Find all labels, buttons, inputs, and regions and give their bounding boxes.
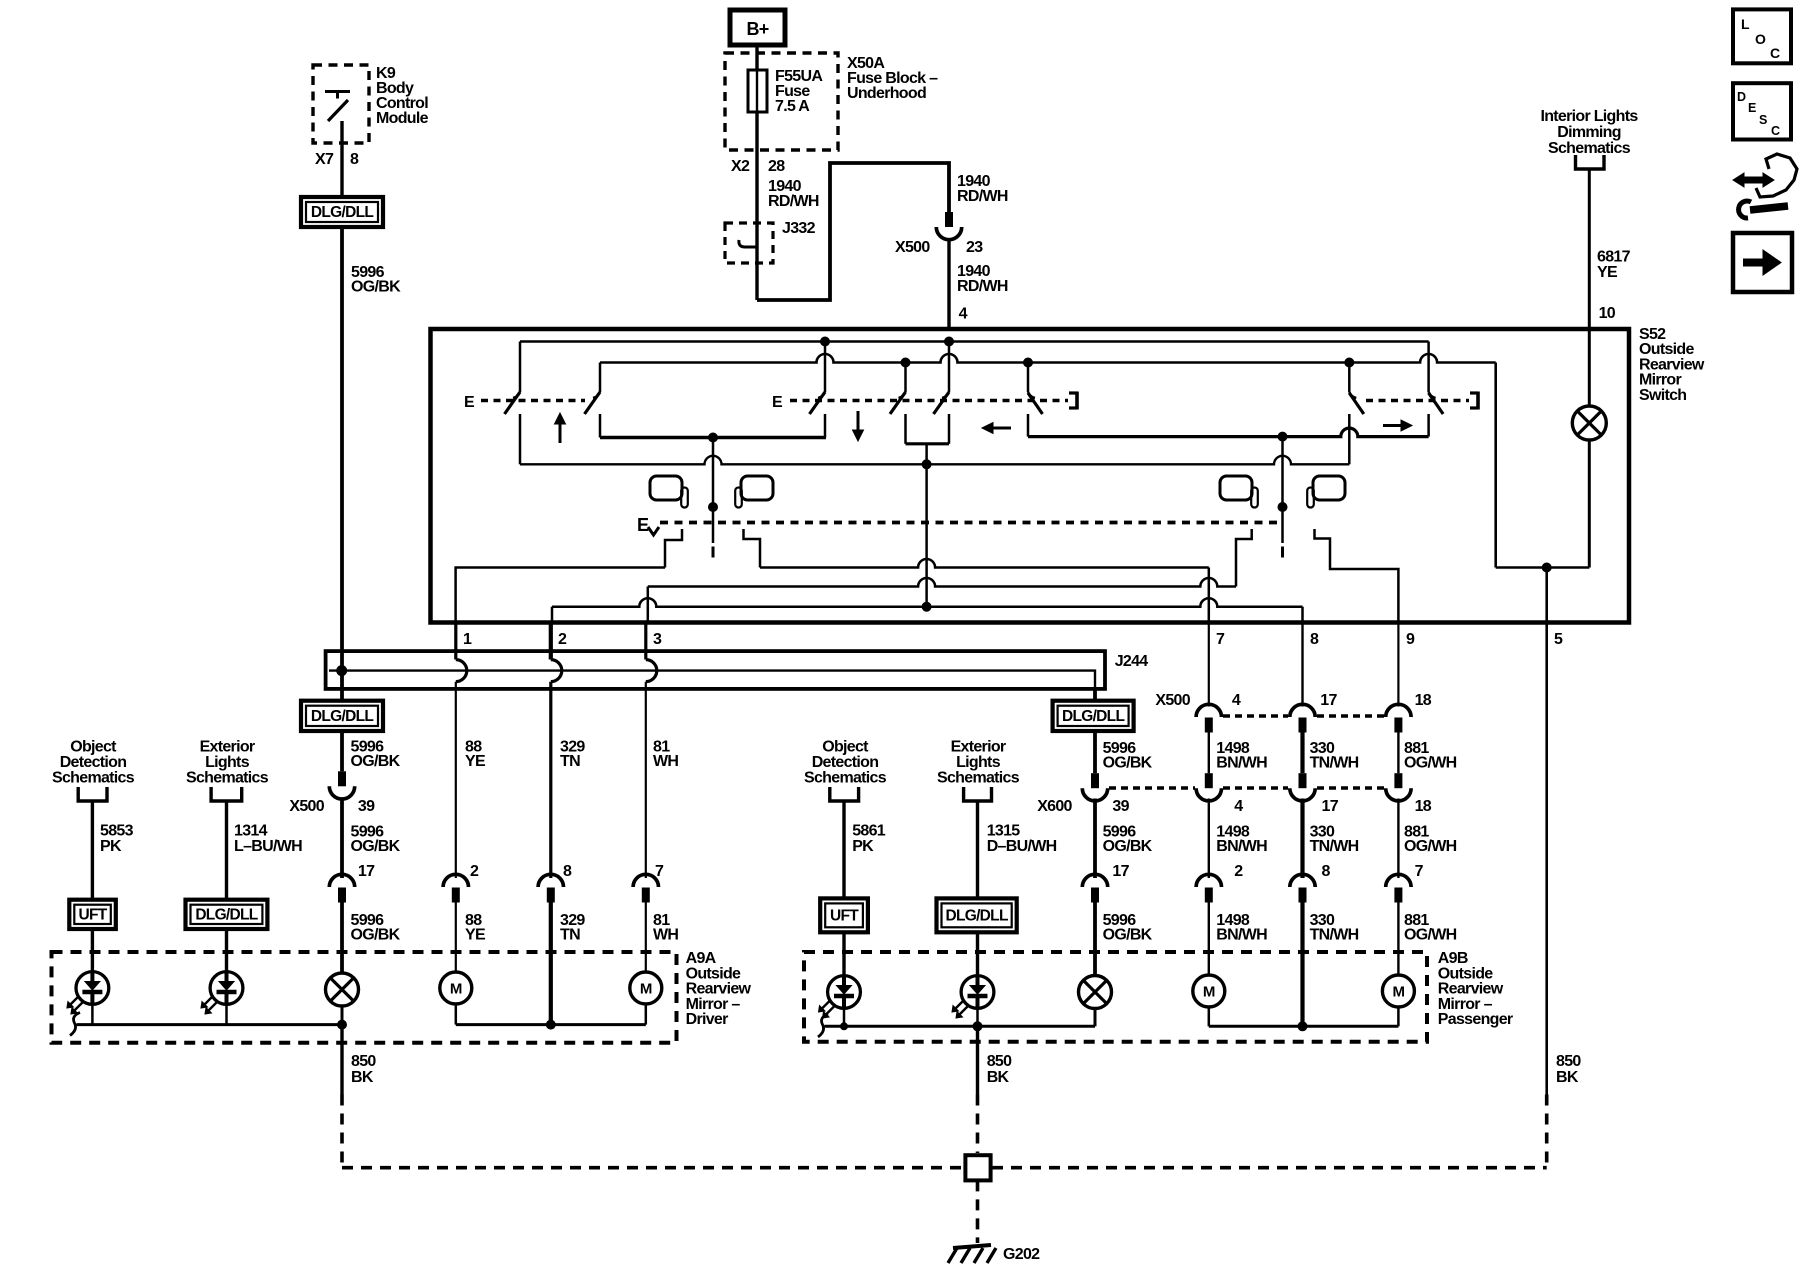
svg-text:OG/WH: OG/WH <box>1404 838 1457 855</box>
switch down-left SA <box>824 342 827 393</box>
wire X500 to S52 pin 4 <box>947 239 950 329</box>
schematic bracket exterior lights right <box>964 787 992 801</box>
DLG/DLL box upper left <box>301 197 383 227</box>
DLG/DLL box exterior left <box>186 900 268 929</box>
switch right-2 SF <box>1427 342 1430 393</box>
svg-text:E: E <box>772 394 783 411</box>
svg-text:Schematics: Schematics <box>804 769 887 786</box>
wire pin8 middle <box>1300 731 1304 773</box>
svg-text:S: S <box>1759 113 1767 127</box>
svg-text:8: 8 <box>563 863 572 880</box>
svg-text:5: 5 <box>1554 631 1563 648</box>
dashed drop to G202 <box>976 1180 980 1243</box>
wire pin8 drop <box>1301 607 1304 623</box>
junction dot pin5 <box>1542 563 1551 572</box>
G202 ground symbol <box>953 1245 991 1248</box>
down arrow <box>857 411 860 430</box>
svg-text:Interior Lights: Interior Lights <box>1540 108 1638 125</box>
svg-text:4: 4 <box>1232 692 1241 709</box>
junction dot A9A 850 <box>338 1020 347 1029</box>
wire pin7 lower mid <box>1208 799 1210 879</box>
A9A motor1 drop <box>455 1004 458 1025</box>
svg-text:O: O <box>1755 31 1766 47</box>
K9 internal switch symbol <box>325 90 350 93</box>
wire S52 pin5 850 BK <box>1545 623 1548 1095</box>
connector X500 pin 23 <box>945 212 953 227</box>
dashed ground run right <box>992 1166 1547 1170</box>
wire 1095 to lamp <box>1093 902 1097 976</box>
svg-text:7: 7 <box>1216 631 1225 648</box>
svg-text:BN/WH: BN/WH <box>1216 838 1267 855</box>
svg-text:4: 4 <box>959 306 968 323</box>
svg-text:Schematics: Schematics <box>52 769 135 786</box>
wire pin3 below box <box>644 623 647 660</box>
wire fuse output to X500 <box>757 163 949 300</box>
DLG/DLL box lower left <box>301 701 383 731</box>
left arrow <box>992 427 1011 430</box>
junction dot rail2 x1350 <box>1345 358 1354 367</box>
switch up-left S1 <box>519 342 522 393</box>
svg-text:X500: X500 <box>289 798 324 815</box>
A9B heater lamp <box>1079 976 1112 1009</box>
wire selector to pin7 <box>760 559 1209 568</box>
schematic bracket object detection right <box>830 787 859 801</box>
pair BC tap wire lower <box>925 464 928 602</box>
wire UFT to LED right <box>842 932 845 977</box>
wire pin5 node <box>1496 566 1590 569</box>
junction dot BC tap on L3 <box>922 602 931 611</box>
rail2 <box>600 354 1496 363</box>
left mirror icon passenger <box>741 476 773 500</box>
Ev dashed link <box>660 521 1283 525</box>
A9A lamp drop <box>341 1006 344 1025</box>
svg-text:TN/WH: TN/WH <box>1310 755 1359 772</box>
svg-text:B+: B+ <box>746 19 768 39</box>
wire pin2 below box <box>549 623 553 660</box>
svg-text:OG/BK: OG/BK <box>351 927 401 944</box>
svg-text:X7: X7 <box>315 151 334 168</box>
S52 outside rearview mirror switch box <box>431 329 1630 623</box>
svg-text:M: M <box>640 981 652 998</box>
junction dot rail1 x825 <box>821 337 830 346</box>
DLG/DLL box lower right <box>1053 701 1134 731</box>
connector X600-17 <box>1299 773 1307 788</box>
svg-text:8: 8 <box>1322 863 1331 880</box>
wire A9A 850 BK <box>340 1025 343 1095</box>
A9A led2 drop <box>225 1004 228 1025</box>
svg-text:BK: BK <box>987 1069 1010 1086</box>
J244 pass-through pin3 <box>646 660 657 682</box>
right selector blade tip <box>1281 547 1284 558</box>
connector X500-18 <box>1386 704 1411 717</box>
svg-text:1: 1 <box>463 631 472 648</box>
svg-text:Dimming: Dimming <box>1557 124 1621 141</box>
wire selector to pin3 <box>648 578 1236 587</box>
svg-text:Schematics: Schematics <box>937 769 1020 786</box>
X600 dashed link a <box>1109 786 1195 790</box>
junction dot 5996 on J244 <box>337 666 347 676</box>
svg-text:DLG/DLL: DLG/DLL <box>1062 708 1124 725</box>
svg-text:TN: TN <box>560 927 580 944</box>
svg-text:Schematics: Schematics <box>186 769 269 786</box>
svg-text:7: 7 <box>1415 863 1424 880</box>
junction dot rail3 x926 <box>922 460 931 469</box>
wire pin7 middle <box>1208 731 1210 773</box>
left selector left contact <box>665 529 682 568</box>
svg-text:PK: PK <box>100 838 122 855</box>
junction dot A9B 330 <box>1298 1022 1307 1031</box>
svg-text:BN/WH: BN/WH <box>1216 755 1267 772</box>
svg-text:L: L <box>1741 16 1750 32</box>
junction dot U3 tap <box>1278 432 1287 441</box>
svg-text:2: 2 <box>470 863 479 880</box>
wire pin2 drop <box>551 607 554 623</box>
svg-text:RD/WH: RD/WH <box>768 193 819 210</box>
U loop SB-SC <box>906 442 950 445</box>
wire pin5 850 BK dashed <box>1545 1095 1549 1168</box>
svg-text:J332: J332 <box>782 220 816 237</box>
svg-text:850: 850 <box>351 1053 376 1070</box>
svg-text:OG/BK: OG/BK <box>1103 838 1153 855</box>
J332 tap symbol <box>739 240 757 247</box>
svg-text:OG/BK: OG/BK <box>1103 927 1153 944</box>
wire A9B 850 BK <box>976 1026 979 1094</box>
wire pin3 drop <box>647 587 650 623</box>
svg-text:10: 10 <box>1599 305 1616 322</box>
svg-text:DLG/DLL: DLG/DLL <box>311 708 373 725</box>
wire 342 below X500 <box>340 799 344 879</box>
svg-text:850: 850 <box>1556 1053 1581 1070</box>
junction dot rail1 x949 <box>945 337 954 346</box>
svg-text:Driver: Driver <box>686 1011 729 1028</box>
switch down-right SB <box>904 363 907 393</box>
right arrow icon box <box>1733 233 1792 292</box>
junction dot A9B 850 <box>973 1022 982 1031</box>
wire 81WH to motor <box>645 902 647 973</box>
UFT box right <box>820 898 868 932</box>
svg-text:BK: BK <box>351 1069 374 1086</box>
svg-text:DLG/DLL: DLG/DLL <box>311 204 373 221</box>
svg-text:3: 3 <box>653 631 662 648</box>
UFT box left <box>69 900 116 929</box>
svg-text:Underhood: Underhood <box>847 85 926 102</box>
wire 342 segment <box>340 671 344 701</box>
wire pin1 below box <box>454 623 457 660</box>
LOC icon box <box>1733 9 1791 63</box>
schematic link bracket <box>1576 155 1605 169</box>
svg-text:M: M <box>1393 984 1405 1001</box>
J244 pass-through pin1 <box>456 660 467 682</box>
svg-text:X500: X500 <box>1155 692 1190 709</box>
svg-text:17: 17 <box>1320 692 1337 709</box>
svg-text:YE: YE <box>1597 264 1618 281</box>
svg-text:18: 18 <box>1415 692 1432 709</box>
A9A motor2 drop <box>645 1004 648 1025</box>
wire B+ through fuse <box>755 45 758 70</box>
right arrow <box>1383 424 1402 427</box>
svg-text:Module: Module <box>376 110 429 127</box>
svg-text:DLG/DLL: DLG/DLL <box>945 907 1007 924</box>
wire pin9 lower mid <box>1397 799 1399 879</box>
wire selector to pin1 <box>456 568 665 623</box>
svg-text:E: E <box>637 515 649 535</box>
junction dot rail2 x1028 <box>1024 358 1033 367</box>
A9B photodiode 1 <box>828 976 861 1009</box>
schematic bracket object detection left <box>78 787 107 801</box>
wire 1302 to bus <box>1300 902 1304 1027</box>
wire pin7 below box <box>1208 623 1210 707</box>
A9B left bus <box>818 1014 828 1037</box>
connector row3 x1398 <box>1386 874 1411 887</box>
connector X600-39 <box>1091 773 1099 788</box>
junction dot left mirror tap <box>709 503 718 512</box>
svg-text:18: 18 <box>1415 798 1432 815</box>
up arrow <box>559 424 562 443</box>
X500 dashed link b <box>1317 714 1384 718</box>
wire pin2 to connector <box>549 682 552 878</box>
A9A motor left-right <box>630 972 662 1004</box>
svg-text:28: 28 <box>768 158 785 175</box>
svg-text:Schematics: Schematics <box>1548 140 1631 157</box>
svg-text:M: M <box>1203 984 1215 1001</box>
svg-text:Switch: Switch <box>1639 387 1686 404</box>
wire 88YE to motor <box>455 902 457 973</box>
E bracket row 2 <box>1069 391 1077 394</box>
wire K9 to DLG/DLL <box>340 121 343 197</box>
junction dot rail2 x905 <box>901 358 910 367</box>
connector row3 x1302 <box>1290 874 1315 887</box>
svg-text:TN/WH: TN/WH <box>1310 838 1359 855</box>
svg-text:39: 39 <box>358 798 375 815</box>
rail3 switch outputs <box>520 456 1349 465</box>
fuse F55UA symbol <box>748 70 767 112</box>
connector row3 x1208 <box>1196 874 1221 887</box>
rail from pin4 top <box>520 340 1429 343</box>
A9B right bus <box>1209 1025 1399 1028</box>
svg-text:YE: YE <box>465 753 486 770</box>
A9A led1 drop <box>91 1004 94 1025</box>
connector X500-4 <box>1196 704 1221 717</box>
svg-text:J244: J244 <box>1115 653 1149 670</box>
B+ battery feed box <box>730 10 785 45</box>
A9A right bus <box>456 1023 646 1026</box>
X50A fuse block dashed box <box>725 53 838 150</box>
svg-text:6817: 6817 <box>1597 249 1631 266</box>
dashed ground run left <box>342 1166 963 1170</box>
svg-text:WH: WH <box>653 753 678 770</box>
X600 dashed link c <box>1317 786 1384 790</box>
J244 splice pack box <box>326 651 1105 689</box>
wire pin9 below box <box>1397 623 1399 707</box>
svg-text:DLG/DLL: DLG/DLL <box>195 906 257 923</box>
right selector tap wire <box>1281 437 1284 543</box>
svg-text:OG/BK: OG/BK <box>351 753 401 770</box>
wire lamp to common <box>1588 440 1591 568</box>
junction dot A9B led1 <box>841 1023 848 1030</box>
svg-text:OG/WH: OG/WH <box>1404 755 1457 772</box>
svg-text:X2: X2 <box>731 158 750 175</box>
left selector blade tip <box>712 547 715 558</box>
A9A heater lamp <box>326 973 359 1006</box>
A9A photodiode 2 <box>210 972 243 1005</box>
wire pin8 below box <box>1301 623 1303 707</box>
svg-text:17: 17 <box>1112 863 1129 880</box>
svg-text:39: 39 <box>1112 798 1129 815</box>
right selector left contact <box>1236 529 1252 587</box>
X600 dashed link b <box>1223 786 1288 790</box>
svg-text:2: 2 <box>558 631 567 648</box>
wire DLG/DLL to LED left <box>225 929 228 973</box>
right mirror icon driver <box>1220 476 1252 500</box>
wire 1398 to motor <box>1397 902 1399 976</box>
svg-text:9: 9 <box>1406 631 1415 648</box>
svg-text:PK: PK <box>852 838 874 855</box>
junction dot A9A 329 <box>546 1020 555 1029</box>
left selector right contact <box>744 529 761 568</box>
schematic bracket exterior lights left <box>211 787 242 801</box>
right mirror icon passenger <box>1313 476 1345 500</box>
A9A motor up-down <box>440 972 472 1004</box>
left mirror icon driver <box>650 476 682 500</box>
junction dot U1 tap <box>709 433 718 442</box>
J332 splice dashed box <box>725 223 773 263</box>
switch right-1 SE <box>1348 363 1351 393</box>
svg-text:RD/WH: RD/WH <box>957 278 1008 295</box>
svg-text:23: 23 <box>966 239 983 256</box>
pair BC tap wire <box>925 444 928 465</box>
wire pin5 drop <box>1545 568 1548 623</box>
A9A left bus <box>70 1013 80 1036</box>
svg-text:4: 4 <box>1234 798 1243 815</box>
A9B motor up-down <box>1193 975 1225 1007</box>
connector row3 x342 <box>329 874 354 887</box>
switch up-right S2 <box>599 363 602 393</box>
wire pin3 to connector <box>645 682 647 878</box>
E link row 3 <box>1366 399 1469 402</box>
A9B motor1 drop <box>1208 1007 1211 1026</box>
wire UFT to LED <box>91 929 94 973</box>
X500 dashed link a <box>1223 714 1288 718</box>
double arrow with wrench icon <box>1743 177 1764 184</box>
wire pin9 middle <box>1397 731 1399 773</box>
S52 illumination lamp <box>1572 406 1606 440</box>
svg-text:E: E <box>464 394 475 411</box>
A9A dashed box <box>52 952 677 1043</box>
wire 5861 PK <box>842 801 845 898</box>
J244 internal bus <box>329 671 1095 689</box>
wire 342 below DLG <box>340 731 344 771</box>
svg-text:7.5 A: 7.5 A <box>775 98 810 115</box>
E bracket row 3 <box>1470 391 1478 394</box>
svg-text:OG/WH: OG/WH <box>1404 927 1457 944</box>
A9B led1 drop <box>843 1008 846 1026</box>
svg-text:TN/WH: TN/WH <box>1310 927 1359 944</box>
K9 Body Control Module dashed box <box>313 65 369 143</box>
switch left-2 SD <box>1027 363 1030 393</box>
svg-text:C: C <box>1770 45 1780 61</box>
connector X500 39 left <box>338 771 346 786</box>
svg-text:X600: X600 <box>1037 798 1072 815</box>
svg-text:OG/BK: OG/BK <box>1103 755 1153 772</box>
wire pin8 lower mid <box>1300 799 1304 879</box>
wire 342 to lamp <box>340 902 344 974</box>
wire 6817 YE to S52 pin 10 <box>1588 169 1591 329</box>
wire DLG to X600 <box>1093 731 1097 773</box>
svg-text:17: 17 <box>358 863 375 880</box>
svg-text:G202: G202 <box>1003 1246 1040 1263</box>
wire pin2 to pin8 <box>552 598 1303 607</box>
svg-text:BK: BK <box>1556 1069 1579 1086</box>
wire A9B 850 BK dashed <box>976 1095 980 1154</box>
connector row3 pin1 wire <box>443 874 468 887</box>
svg-text:UFT: UFT <box>830 907 859 924</box>
A9B lamp drop <box>1094 1009 1097 1027</box>
wire 1095 upper segment <box>1093 689 1097 701</box>
A9A photodiode 1 <box>76 972 109 1005</box>
connector X500-17 <box>1290 704 1315 717</box>
connector X600-18 <box>1394 773 1402 788</box>
svg-text:WH: WH <box>653 927 678 944</box>
wire 5996 OG/BK down to J244 <box>340 227 344 670</box>
connector X600-4 <box>1205 773 1213 788</box>
svg-text:8: 8 <box>1310 631 1319 648</box>
svg-text:850: 850 <box>987 1053 1012 1070</box>
A9B motor left-right <box>1382 975 1414 1007</box>
connector row3 pin3 wire <box>633 874 658 887</box>
svg-text:M: M <box>450 981 462 998</box>
wire A9A 850 BK dashed <box>340 1095 344 1168</box>
A9B motor2 drop <box>1397 1007 1400 1026</box>
svg-text:2: 2 <box>1234 863 1243 880</box>
DLG/DLL box exterior right <box>937 898 1017 932</box>
svg-text:Passenger: Passenger <box>1438 1011 1513 1028</box>
ground splice node <box>965 1155 990 1180</box>
connector row3 x1095 <box>1082 874 1107 887</box>
connector row3 pin2 wire <box>538 874 563 887</box>
wire 1095 to row3 <box>1093 799 1097 879</box>
svg-text:E: E <box>1748 101 1756 115</box>
left selector tap wire <box>712 438 715 544</box>
svg-text:8: 8 <box>350 151 359 168</box>
wire 5853 PK <box>91 801 94 900</box>
svg-text:17: 17 <box>1322 798 1339 815</box>
junction dot right mirror tap <box>1278 503 1287 512</box>
svg-text:RD/WH: RD/WH <box>957 188 1008 205</box>
svg-text:OG/BK: OG/BK <box>351 279 401 296</box>
svg-text:YE: YE <box>465 927 486 944</box>
wire 329TN to bus <box>549 902 553 1025</box>
svg-text:OG/BK: OG/BK <box>351 838 401 855</box>
svg-text:UFT: UFT <box>79 906 108 923</box>
wire 1315 D-BU/WH <box>976 801 979 898</box>
svg-text:TN: TN <box>560 753 580 770</box>
svg-text:BN/WH: BN/WH <box>1216 927 1267 944</box>
DESC icon box <box>1733 83 1791 139</box>
U loop SD-SF <box>1028 428 1429 437</box>
A9B led2 drop <box>976 1008 979 1026</box>
J244 pass-through pin2 <box>551 660 562 682</box>
wire rail2 down to pin5 node <box>1494 363 1497 568</box>
wire DLG/DLL to LED right <box>976 932 979 977</box>
wire 1208 to motor <box>1208 902 1210 976</box>
svg-text:D: D <box>1737 90 1746 104</box>
right selector right contact <box>1315 529 1399 623</box>
U loop S2-SA <box>600 436 826 440</box>
svg-text:L–BU/WH: L–BU/WH <box>234 838 302 855</box>
svg-text:D–BU/WH: D–BU/WH <box>987 838 1057 855</box>
switch left-1 SC <box>948 342 951 393</box>
wire pin1 to connector <box>455 682 457 878</box>
